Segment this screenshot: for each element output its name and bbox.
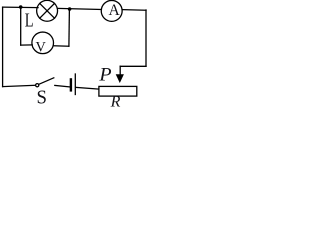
voltmeter circle	[32, 32, 54, 54]
wire voltmeter branch right horizontal	[53, 45, 69, 47]
wire bottom-left to switch	[3, 85, 36, 86]
battery negative plate (short thick)	[70, 79, 72, 90]
wiper arrow shaft	[119, 66, 121, 75]
ammeter A circle	[101, 0, 122, 21]
svg-text:P: P	[98, 65, 111, 85]
node junction left	[19, 5, 23, 9]
wire top-left segment	[3, 6, 38, 9]
switch S contact circle	[36, 84, 39, 87]
svg-text:A: A	[109, 2, 121, 19]
wire switch to battery	[55, 85, 70, 87]
wire right vertical	[145, 10, 147, 66]
svg-text:S: S	[37, 87, 47, 107]
wire corner to wiper	[120, 65, 146, 67]
wiper arrowhead P	[116, 74, 124, 83]
wire ammeter to top-right corner	[122, 9, 146, 12]
wire voltmeter branch left vertical	[20, 7, 22, 45]
wire voltmeter branch right vertical	[68, 9, 71, 46]
svg-text:V: V	[36, 39, 47, 55]
wire voltmeter branch left horizontal	[21, 44, 33, 46]
svg-text:L: L	[25, 10, 34, 32]
wire lamp to ammeter	[58, 8, 102, 9]
lamp L circle	[37, 0, 58, 21]
lamp X diagonal 2	[40, 3, 55, 18]
wire battery to rheostat	[76, 87, 98, 89]
switch S blade	[39, 78, 54, 85]
svg-text:R: R	[110, 94, 121, 107]
wire left vertical	[2, 7, 4, 87]
node junction right	[68, 7, 72, 11]
lamp X diagonal 1	[40, 3, 55, 18]
resistor R rheostat body	[99, 86, 137, 96]
battery positive plate (long)	[74, 74, 76, 95]
